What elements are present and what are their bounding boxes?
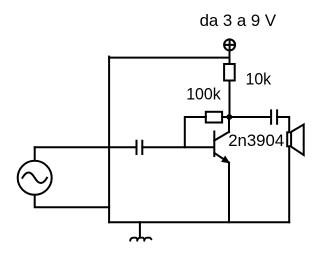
resistor 100k [206, 112, 222, 123]
wire speaker down to ground rail [288, 148, 290, 223]
svg-text:10k: 10k [246, 69, 272, 88]
wire R 100k left down to base [185, 117, 206, 147]
capacitor input coupling [137, 141, 143, 154]
wire input to capacitor [35, 146, 137, 148]
wire bottom ground rail [109, 221, 289, 223]
wire AC source bottom [35, 195, 109, 207]
svg-text:da 3 a 9 V: da 3 a 9 V [200, 11, 277, 30]
wire capacitor to base [142, 146, 214, 148]
transistor Q1 2n3904 [214, 132, 229, 163]
wire AC source top to input [34, 147, 36, 160]
capacitor output coupling [271, 110, 277, 123]
wire emitter down to ground rail [228, 163, 230, 223]
wire junction to output capacitor [229, 116, 270, 118]
supply terminal + [224, 39, 235, 50]
ground [130, 222, 151, 240]
AC source [18, 161, 52, 195]
resistor 10k [224, 64, 235, 81]
speaker LS1 [287, 125, 304, 156]
wire terminal to R 10k [229, 51, 231, 65]
wire R 10k to collector node [229, 81, 231, 118]
svg-text:100k: 100k [186, 85, 221, 104]
wire capacitor to speaker [277, 117, 289, 132]
wire collector up to junction [228, 117, 230, 132]
wire top supply rail [109, 57, 229, 59]
node collector junction [226, 114, 232, 120]
wire left vertical [108, 57, 110, 223]
wire R 100k right to junction [222, 116, 229, 118]
svg-text:2n3904: 2n3904 [228, 131, 284, 150]
